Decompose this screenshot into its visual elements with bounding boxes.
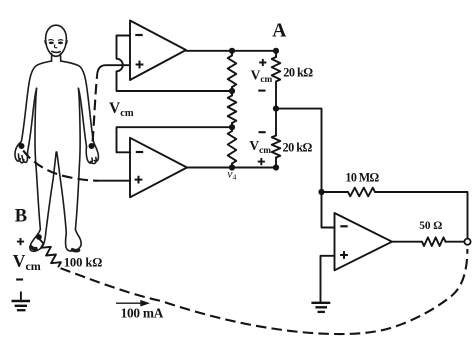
svg-text:100 mA: 100 mA xyxy=(121,305,164,320)
svg-text:B: B xyxy=(15,207,27,227)
svg-text:20 kΩ: 20 kΩ xyxy=(283,66,313,80)
svg-text:100 kΩ: 100 kΩ xyxy=(64,256,103,270)
svg-text:10 MΩ: 10 MΩ xyxy=(345,171,379,185)
svg-text:50 Ω: 50 Ω xyxy=(419,220,442,232)
svg-text:20 kΩ: 20 kΩ xyxy=(283,141,313,155)
svg-text:A: A xyxy=(272,21,286,42)
